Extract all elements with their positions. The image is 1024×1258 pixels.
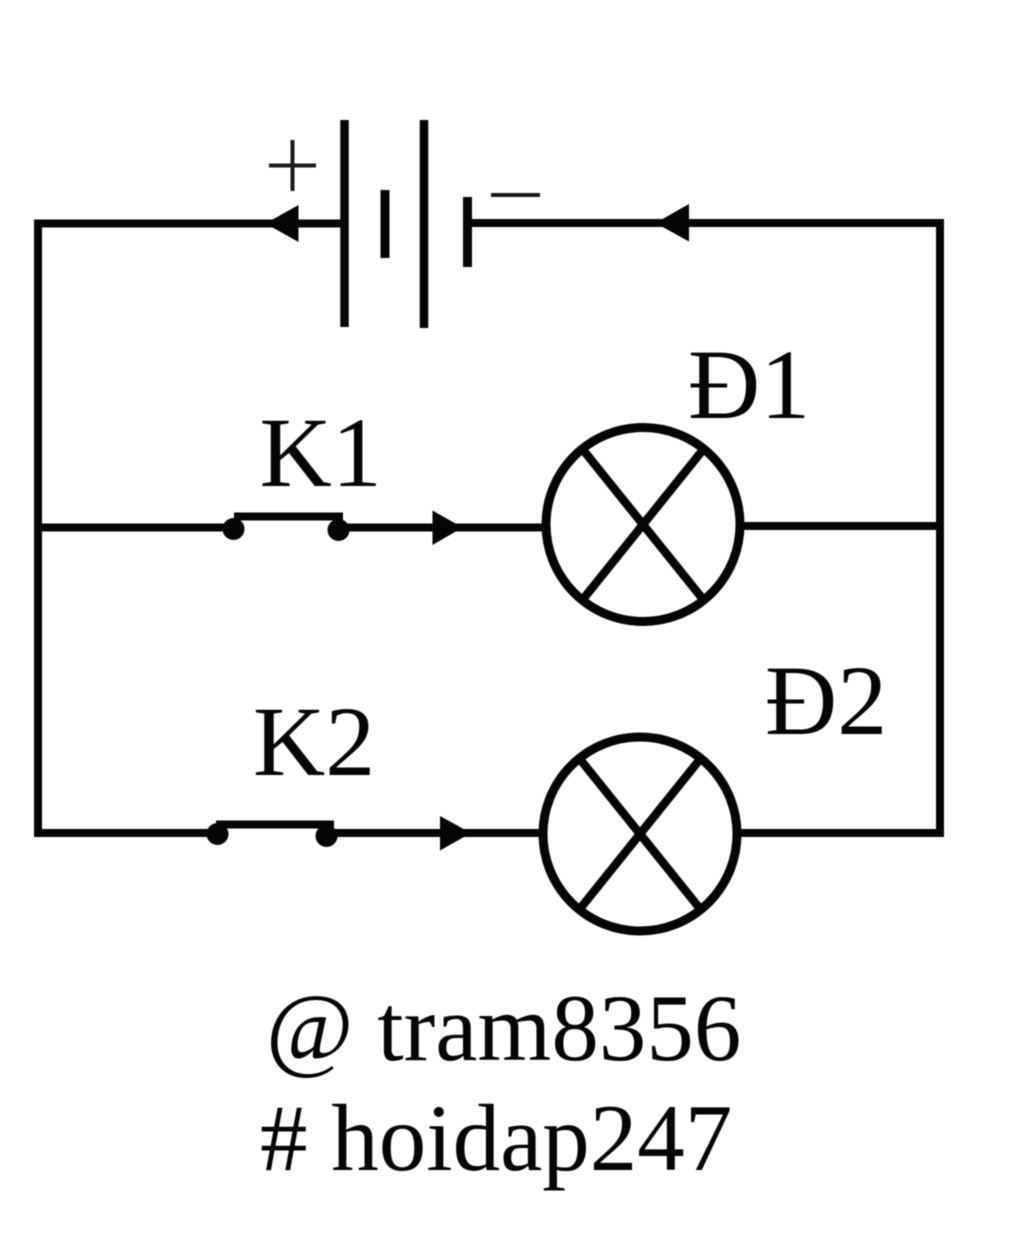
battery plate short right (-): [463, 197, 472, 267]
wire bottom-left segment: [38, 829, 218, 837]
current arrow top-left (points left): [266, 205, 299, 242]
lamp D2: [543, 737, 737, 931]
wire left vertical: [34, 220, 42, 838]
svg-text:K1: K1: [260, 397, 382, 508]
lamp D1: [546, 428, 740, 622]
svg-text:Đ1: Đ1: [688, 329, 810, 440]
current arrow branch2 (points right): [440, 816, 471, 851]
switch K2: [207, 823, 338, 847]
battery plate long right: [420, 120, 429, 328]
svg-text:K2: K2: [253, 686, 375, 797]
battery plate short middle: [381, 190, 390, 258]
switch K1 blade: [234, 513, 343, 521]
svg-text:Đ2: Đ2: [765, 645, 887, 756]
current arrow branch1 (points right): [433, 511, 463, 546]
plus sign label: [269, 140, 316, 191]
wire bottom-right segment: [737, 829, 944, 837]
wire top-left horizontal: [34, 220, 347, 228]
switch K2 left contact dot: [207, 823, 229, 845]
minus sign label: [491, 193, 540, 197]
switch K1: [223, 517, 350, 542]
wire top-right horizontal: [467, 219, 944, 227]
switch K1 right contact dot: [328, 519, 350, 541]
battery plate long left (+): [340, 120, 349, 327]
switch K2 blade: [216, 821, 334, 829]
current arrow top-right (points left): [656, 204, 690, 242]
wire bottom middle segment: [327, 829, 544, 837]
wire branch1 left segment: [38, 524, 234, 532]
svg-text:# hoidap247: # hoidap247: [260, 1085, 732, 1191]
wire branch1 middle segment: [339, 524, 547, 532]
wire right vertical: [936, 219, 944, 837]
wire branch1 right segment: [740, 522, 940, 530]
switch K1 left contact dot: [223, 518, 245, 540]
switch K2 right contact dot: [316, 825, 338, 847]
battery B1: [345, 120, 468, 328]
svg-text:@ tram8356: @ tram8356: [266, 975, 741, 1081]
